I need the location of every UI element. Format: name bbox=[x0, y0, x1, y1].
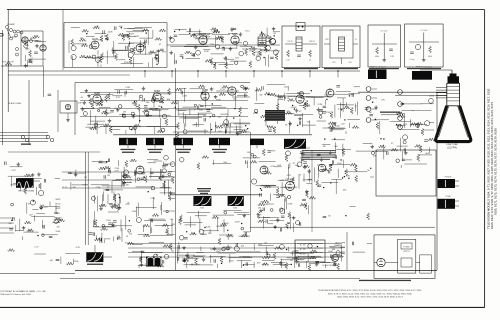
svg-text:5-7 6-4V: 5-7 6-4V bbox=[381, 31, 389, 33]
svg-text:T105: T105 bbox=[200, 208, 204, 210]
caption above flyback A bbox=[197, 188, 211, 189]
svg-text:1500: 1500 bbox=[269, 257, 274, 259]
ion trap block bbox=[438, 199, 456, 209]
tube V1 RF amp bbox=[22, 37, 28, 43]
svg-text:10K: 10K bbox=[8, 223, 12, 225]
tube V7 1st vid IF bbox=[93, 93, 101, 103]
horiz osc wiring (cluster) bbox=[274, 225, 276, 227]
svg-text:180: 180 bbox=[247, 152, 251, 154]
svg-text:470K: 470K bbox=[40, 205, 45, 207]
wire vertical x8 left edge bbox=[7, 10, 9, 112]
wire bus row1 mid bbox=[167, 44, 280, 46]
svg-text:5K: 5K bbox=[328, 215, 331, 217]
tube V2 mixer bbox=[40, 45, 46, 51]
wire power blob bbox=[94, 245, 96, 252]
svg-text:HI REC MODULE: HI REC MODULE bbox=[322, 265, 338, 267]
sound take-off coil T6 bbox=[284, 139, 306, 149]
IF transformer can T4 bbox=[209, 138, 230, 145]
wire bus y227 lower bbox=[250, 226, 435, 228]
svg-text:B+ 135: B+ 135 bbox=[300, 245, 305, 247]
wire left-edge stub rails bbox=[0, 132, 48, 134]
focus magnet block bbox=[438, 179, 456, 188]
svg-text:470K: 470K bbox=[253, 113, 258, 115]
svg-text:.047: .047 bbox=[107, 113, 112, 115]
svg-text:10K: 10K bbox=[199, 110, 203, 112]
wire bus IF strip frame bbox=[75, 82, 250, 84]
tube V9 3rd vid IF bbox=[201, 90, 209, 100]
audio output transformer and speaker bbox=[258, 37, 266, 46]
svg-text:6CB6: 6CB6 bbox=[202, 90, 208, 92]
svg-text:47: 47 bbox=[391, 143, 394, 145]
left small box cluster bbox=[60, 101, 77, 113]
svg-text:POWER: POWER bbox=[403, 246, 410, 248]
svg-text:RF/IF Small Signal: RF/IF Small Signal bbox=[370, 67, 386, 69]
svg-text:T4: T4 bbox=[261, 34, 263, 36]
tube V11 sync sep bbox=[296, 93, 304, 103]
svg-text:B+ 135: B+ 135 bbox=[300, 249, 305, 251]
video out circle column bbox=[398, 90, 403, 95]
svg-text:.047: .047 bbox=[256, 262, 261, 264]
tube V8 2nd vid IF bbox=[153, 91, 161, 101]
svg-text:2.2M: 2.2M bbox=[288, 204, 293, 206]
svg-text:.005: .005 bbox=[118, 26, 123, 28]
wire sweep rails bbox=[62, 171, 172, 173]
svg-text:4.7K: 4.7K bbox=[11, 170, 16, 172]
wire vertical x63 bbox=[62, 10, 64, 70]
svg-text:47K: 47K bbox=[332, 62, 336, 64]
sound det wiring (cluster) bbox=[301, 159, 302, 160]
svg-text:2M: 2M bbox=[57, 227, 60, 229]
svg-text:6CB6: 6CB6 bbox=[94, 93, 100, 95]
svg-text:470K: 470K bbox=[179, 114, 184, 116]
svg-text:TELEVISION MODELS 9104, 9-T1,: TELEVISION MODELS 9104, 9-T1, 9105, 9-T3… bbox=[318, 290, 422, 292]
svg-text:IF: IF bbox=[355, 39, 357, 41]
peaking coil pack bbox=[265, 110, 285, 121]
sound IF wiring (cluster) bbox=[196, 50, 201, 55]
svg-text:100: 100 bbox=[241, 246, 245, 248]
horiz right sparse wiring (cluster) bbox=[345, 215, 346, 216]
svg-text:.005: .005 bbox=[342, 189, 347, 191]
svg-text:27K: 27K bbox=[116, 194, 120, 196]
svg-text:0.1mg: 0.1mg bbox=[410, 59, 415, 61]
svg-text:.047: .047 bbox=[103, 36, 108, 38]
svg-text:HOLD: HOLD bbox=[55, 204, 61, 206]
svg-text:6800: 6800 bbox=[375, 56, 379, 58]
svg-text:1M: 1M bbox=[258, 208, 261, 210]
svg-text:2.2M: 2.2M bbox=[390, 56, 394, 58]
svg-text:RF/IF Small Signal: RF/IF Small Signal bbox=[416, 67, 432, 69]
b+ distribution wiring (cluster) bbox=[351, 242, 353, 246]
svg-text:47: 47 bbox=[299, 111, 302, 113]
inset IF transformer detail box 2 bbox=[322, 26, 360, 68]
svg-text:470K: 470K bbox=[216, 100, 221, 102]
power supply inset box bbox=[374, 235, 435, 278]
svg-text:5K: 5K bbox=[285, 124, 288, 126]
svg-text:2ND IF: 2ND IF bbox=[309, 41, 316, 43]
filter choke blob bbox=[146, 257, 162, 267]
wire bus bottom of schematic bbox=[75, 270, 437, 272]
wire vertical x437 right section bbox=[436, 92, 438, 270]
svg-text:3RD: 3RD bbox=[325, 39, 329, 41]
svg-text:27K: 27K bbox=[249, 51, 253, 53]
svg-text:10K: 10K bbox=[166, 99, 170, 101]
wire bus y195 flyback row bbox=[170, 194, 262, 196]
svg-text:9165, 9166, 9169, 9-T1, 9170,: 9165, 9166, 9169, 9-T1, 9170, 9171, 9174… bbox=[337, 297, 403, 299]
audio output bottom wiring (cluster) bbox=[287, 247, 289, 252]
wire vertical x85 pair bbox=[85, 152, 87, 245]
svg-text:THE listed TV Chassis, Ind. 19: THE listed TV Chassis, Ind. 1956 bbox=[0, 293, 31, 296]
svg-text:.047: .047 bbox=[341, 123, 346, 125]
wire bus y152 bbox=[8, 151, 100, 153]
stub rail components bbox=[21, 135, 25, 139]
horiz output transformer can bbox=[368, 70, 387, 80]
svg-text:2.2M: 2.2M bbox=[96, 187, 101, 189]
svg-text:.005: .005 bbox=[348, 62, 352, 64]
svg-text:1M: 1M bbox=[323, 146, 326, 148]
svg-text:47: 47 bbox=[159, 44, 162, 46]
caption bars under IF cans bbox=[121, 149, 136, 150]
svg-text:220K: 220K bbox=[200, 234, 205, 236]
svg-text:2.2M: 2.2M bbox=[150, 198, 155, 200]
wire vertical x347 bbox=[346, 232, 348, 270]
svg-text:1M: 1M bbox=[369, 112, 372, 114]
svg-text:1500: 1500 bbox=[106, 220, 111, 222]
svg-text:220K: 220K bbox=[306, 105, 311, 107]
vert deflection coil blob bbox=[16, 178, 34, 188]
interlock terminal strip bbox=[295, 240, 325, 262]
svg-text:10K: 10K bbox=[373, 155, 377, 157]
tube V6 audio out2 bbox=[231, 33, 239, 44]
video IF strip wiring (cluster) bbox=[241, 85, 244, 88]
svg-text:R 12: R 12 bbox=[245, 30, 250, 32]
svg-text:6SN7: 6SN7 bbox=[297, 93, 303, 95]
radio-phono jack cluster bbox=[332, 255, 339, 262]
svg-text:POS 1 PIX IF: POS 1 PIX IF bbox=[2, 62, 14, 64]
svg-text:.0047: .0047 bbox=[234, 222, 240, 224]
wire bus row1 box bbox=[64, 22, 167, 24]
sync sep left top wiring (cluster) bbox=[32, 173, 34, 175]
svg-text:33K: 33K bbox=[80, 38, 84, 40]
CRT pin stubs bbox=[436, 87, 447, 89]
svg-text:SUPPLY: SUPPLY bbox=[403, 251, 410, 253]
horiz afc top strip wiring (cluster) bbox=[318, 168, 320, 178]
svg-text:220K: 220K bbox=[74, 261, 79, 263]
tube V4 sound det bbox=[136, 44, 144, 52]
svg-text:.0047: .0047 bbox=[134, 36, 140, 38]
video amp box wiring (cluster) bbox=[113, 50, 115, 54]
svg-text:1.5K: 1.5K bbox=[286, 60, 290, 62]
svg-text:VERT: VERT bbox=[55, 199, 61, 201]
svg-text:4.7K: 4.7K bbox=[287, 175, 292, 177]
svg-text:10K: 10K bbox=[192, 124, 196, 126]
speaker section box bbox=[376, 150, 436, 196]
svg-text:180: 180 bbox=[218, 117, 222, 119]
svg-text:.005: .005 bbox=[334, 146, 339, 148]
tube V15 damper bbox=[285, 180, 295, 191]
svg-text:27K: 27K bbox=[381, 100, 385, 102]
rectifier tube in inset bbox=[377, 258, 385, 266]
CRT hv cap wire bbox=[451, 70, 453, 74]
svg-text:9116, 9-T8, 9, 9120, 22-10, 91: 9116, 9-T8, 9, 9120, 22-10, 9150, 9161, … bbox=[328, 292, 413, 295]
power transformer blob bbox=[86, 252, 103, 262]
picture tube CRT bbox=[448, 76, 460, 83]
svg-text:1M: 1M bbox=[126, 184, 129, 186]
inset IF transformer detail box 1 bbox=[282, 26, 320, 68]
tube V14 horiz osc bbox=[260, 166, 268, 174]
vert hold ladder wiring (cluster) bbox=[75, 170, 77, 177]
svg-text:10K: 10K bbox=[72, 187, 76, 189]
IF transformer can T2 bbox=[146, 138, 164, 145]
vert osc wiring (cluster) bbox=[334, 155, 336, 159]
svg-text:1M: 1M bbox=[117, 236, 120, 238]
tube V3 1st sound IF bbox=[91, 38, 99, 49]
svg-text:.01: .01 bbox=[126, 236, 130, 238]
svg-text:68: 68 bbox=[96, 26, 99, 28]
svg-text:LIN: LIN bbox=[56, 213, 60, 215]
width coil can bbox=[412, 71, 432, 80]
wire IF strip rails bbox=[80, 92, 248, 94]
wire vertical x175 main bbox=[175, 68, 177, 270]
svg-text:RF AGC LEVEL: RF AGC LEVEL bbox=[8, 102, 21, 105]
svg-text:220K: 220K bbox=[429, 95, 434, 97]
svg-text:GE 9001: GE 9001 bbox=[285, 180, 295, 182]
svg-text:.0047: .0047 bbox=[328, 251, 334, 253]
svg-text:.0047: .0047 bbox=[425, 153, 431, 155]
svg-text:100: 100 bbox=[235, 58, 239, 60]
IF transformer can T1 bbox=[119, 138, 137, 145]
inset AGC detail box 3 bbox=[368, 25, 401, 67]
page right border line bbox=[484, 10, 486, 308]
svg-text:HEIGHT: HEIGHT bbox=[54, 217, 62, 219]
wire bus black-block row bbox=[113, 134, 312, 136]
svg-text:R 12: R 12 bbox=[116, 97, 121, 99]
svg-text:.01: .01 bbox=[309, 60, 312, 62]
tube V16 hv rect bbox=[318, 164, 326, 172]
wire vertical x250 bbox=[250, 132, 252, 232]
brightness control caption bbox=[380, 112, 400, 113]
svg-text:.01: .01 bbox=[80, 97, 84, 99]
agc section wiring (cluster) bbox=[375, 119, 389, 121]
horiz afc wiring (cluster) bbox=[227, 234, 229, 240]
svg-text:.047: .047 bbox=[49, 260, 54, 262]
svg-text:T106: T106 bbox=[233, 208, 237, 210]
svg-text:470K: 470K bbox=[204, 51, 209, 53]
svg-text:10K: 10K bbox=[78, 103, 82, 105]
svg-text:RF AMP: RF AMP bbox=[7, 23, 15, 26]
svg-text:.0047: .0047 bbox=[284, 87, 290, 89]
svg-text:KINE TUBE: KINE TUBE bbox=[446, 144, 458, 146]
IF transformer can T3 bbox=[174, 138, 194, 145]
svg-text:VERT MOD (KINE): VERT MOD (KINE) bbox=[18, 191, 34, 193]
svg-text:2.2M: 2.2M bbox=[182, 96, 187, 98]
wire bus y92 right bbox=[358, 91, 447, 93]
svg-text:4.7K: 4.7K bbox=[270, 166, 275, 168]
svg-text:.047: .047 bbox=[29, 214, 34, 216]
svg-text:6800: 6800 bbox=[428, 56, 432, 58]
svg-text:6AU6: 6AU6 bbox=[92, 38, 98, 41]
svg-text:68: 68 bbox=[290, 260, 293, 262]
svg-text:4.7K: 4.7K bbox=[125, 204, 130, 206]
sync sep left wiring (cluster) bbox=[55, 205, 57, 211]
svg-text:VERT: VERT bbox=[55, 208, 61, 210]
svg-text:5-7 6-4V: 5-7 6-4V bbox=[421, 30, 429, 32]
svg-text:4.7K: 4.7K bbox=[403, 124, 408, 126]
tube V5 audio out bbox=[199, 33, 207, 44]
wire left-edge stubs y218-236 bbox=[0, 217, 14, 219]
svg-text:1500: 1500 bbox=[335, 125, 340, 127]
svg-text:100: 100 bbox=[208, 233, 212, 235]
svg-text:33K: 33K bbox=[146, 102, 150, 104]
svg-text:220K: 220K bbox=[210, 44, 215, 46]
svg-text:68: 68 bbox=[191, 264, 194, 266]
svg-text:YOKE: YOKE bbox=[445, 196, 451, 198]
svg-text:.047: .047 bbox=[280, 180, 285, 182]
svg-text:2.2M: 2.2M bbox=[125, 87, 130, 89]
svg-text:6AQ5: 6AQ5 bbox=[200, 33, 207, 36]
wire bus y70 B+ rail bbox=[8, 70, 360, 72]
svg-text:PIX IF: PIX IF bbox=[288, 41, 294, 43]
tube V12 sync amp bbox=[326, 89, 334, 97]
wire bottom band rails bbox=[128, 243, 342, 245]
svg-text:5K: 5K bbox=[170, 219, 173, 221]
svg-text:2.2M: 2.2M bbox=[317, 104, 322, 106]
svg-text:1M: 1M bbox=[123, 112, 126, 114]
vert output transformer blob bbox=[193, 196, 211, 206]
svg-text:27K: 27K bbox=[189, 257, 193, 259]
caption under power blob bbox=[87, 264, 103, 265]
svg-text:MIXER: MIXER bbox=[30, 38, 37, 40]
svg-text:.0047: .0047 bbox=[228, 261, 234, 263]
svg-text:1M: 1M bbox=[298, 174, 301, 176]
svg-text:6AV6: 6AV6 bbox=[232, 33, 238, 36]
caption power inset bbox=[359, 280, 411, 281]
svg-text:10K: 10K bbox=[233, 99, 237, 101]
tube V13 vert osc bbox=[136, 166, 144, 174]
svg-text:470K: 470K bbox=[98, 40, 103, 42]
svg-text:4.7K: 4.7K bbox=[76, 247, 81, 249]
wire bus IF strip top bbox=[100, 126, 178, 128]
svg-text:4.7K: 4.7K bbox=[114, 171, 119, 173]
svg-text:1M: 1M bbox=[259, 94, 262, 96]
vert output wiring (cluster) bbox=[134, 170, 136, 176]
svg-text:68: 68 bbox=[273, 33, 276, 35]
tube V10 vid amp bbox=[228, 87, 236, 95]
svg-text:470K: 470K bbox=[255, 52, 260, 54]
svg-text:68: 68 bbox=[107, 175, 110, 177]
svg-text:B+ 135: B+ 135 bbox=[300, 254, 305, 256]
svg-text:.005: .005 bbox=[277, 165, 282, 167]
svg-text:500K: 500K bbox=[56, 231, 61, 233]
svg-text:COPYRIGHT BY HOWARD W. SAMS +: COPYRIGHT BY HOWARD W. SAMS + CO., INC. bbox=[0, 290, 47, 293]
svg-text:CHASSIS: CHASSIS bbox=[334, 244, 343, 247]
svg-text:FOCUS: FOCUS bbox=[445, 176, 452, 178]
svg-text:C 47: C 47 bbox=[34, 247, 39, 249]
svg-text:B+ 135: B+ 135 bbox=[300, 258, 305, 260]
svg-text:5K: 5K bbox=[198, 105, 201, 107]
svg-text:6CB6: 6CB6 bbox=[154, 91, 160, 93]
wire left verticals bbox=[2, 30, 4, 145]
svg-text:9105, 9171, 9172, 9173, 9174,: 9105, 9171, 9172, 9173, 9174, 9175, 9176… bbox=[493, 128, 497, 215]
page bottom border line bbox=[0, 306, 485, 308]
kine socket circle column bbox=[366, 87, 371, 92]
left column wiring (cluster) bbox=[48, 93, 52, 95]
svg-text:5K: 5K bbox=[367, 170, 370, 172]
note text block voltage readings bbox=[302, 150, 336, 151]
svg-text:10K: 10K bbox=[223, 162, 227, 164]
svg-text:220K: 220K bbox=[108, 31, 113, 33]
svg-text:470K: 470K bbox=[326, 112, 331, 114]
wiring under IF cans (cluster) bbox=[197, 163, 200, 170]
wire vertical x312 bbox=[311, 150, 313, 232]
svg-text:33K: 33K bbox=[131, 103, 135, 105]
svg-text:33K: 33K bbox=[346, 176, 350, 178]
tuner front-end cluster bbox=[6, 26, 9, 29]
svg-text:2.2M: 2.2M bbox=[206, 227, 211, 229]
svg-text:R 12: R 12 bbox=[220, 89, 225, 91]
page top border line bbox=[7, 9, 485, 11]
IF transformer can T5 bbox=[250, 139, 264, 146]
svg-text:1M: 1M bbox=[84, 177, 87, 179]
horiz output transformer blob bbox=[228, 196, 244, 206]
svg-text:.0047: .0047 bbox=[216, 251, 222, 253]
inset AGC detail box 4 bbox=[405, 24, 444, 67]
